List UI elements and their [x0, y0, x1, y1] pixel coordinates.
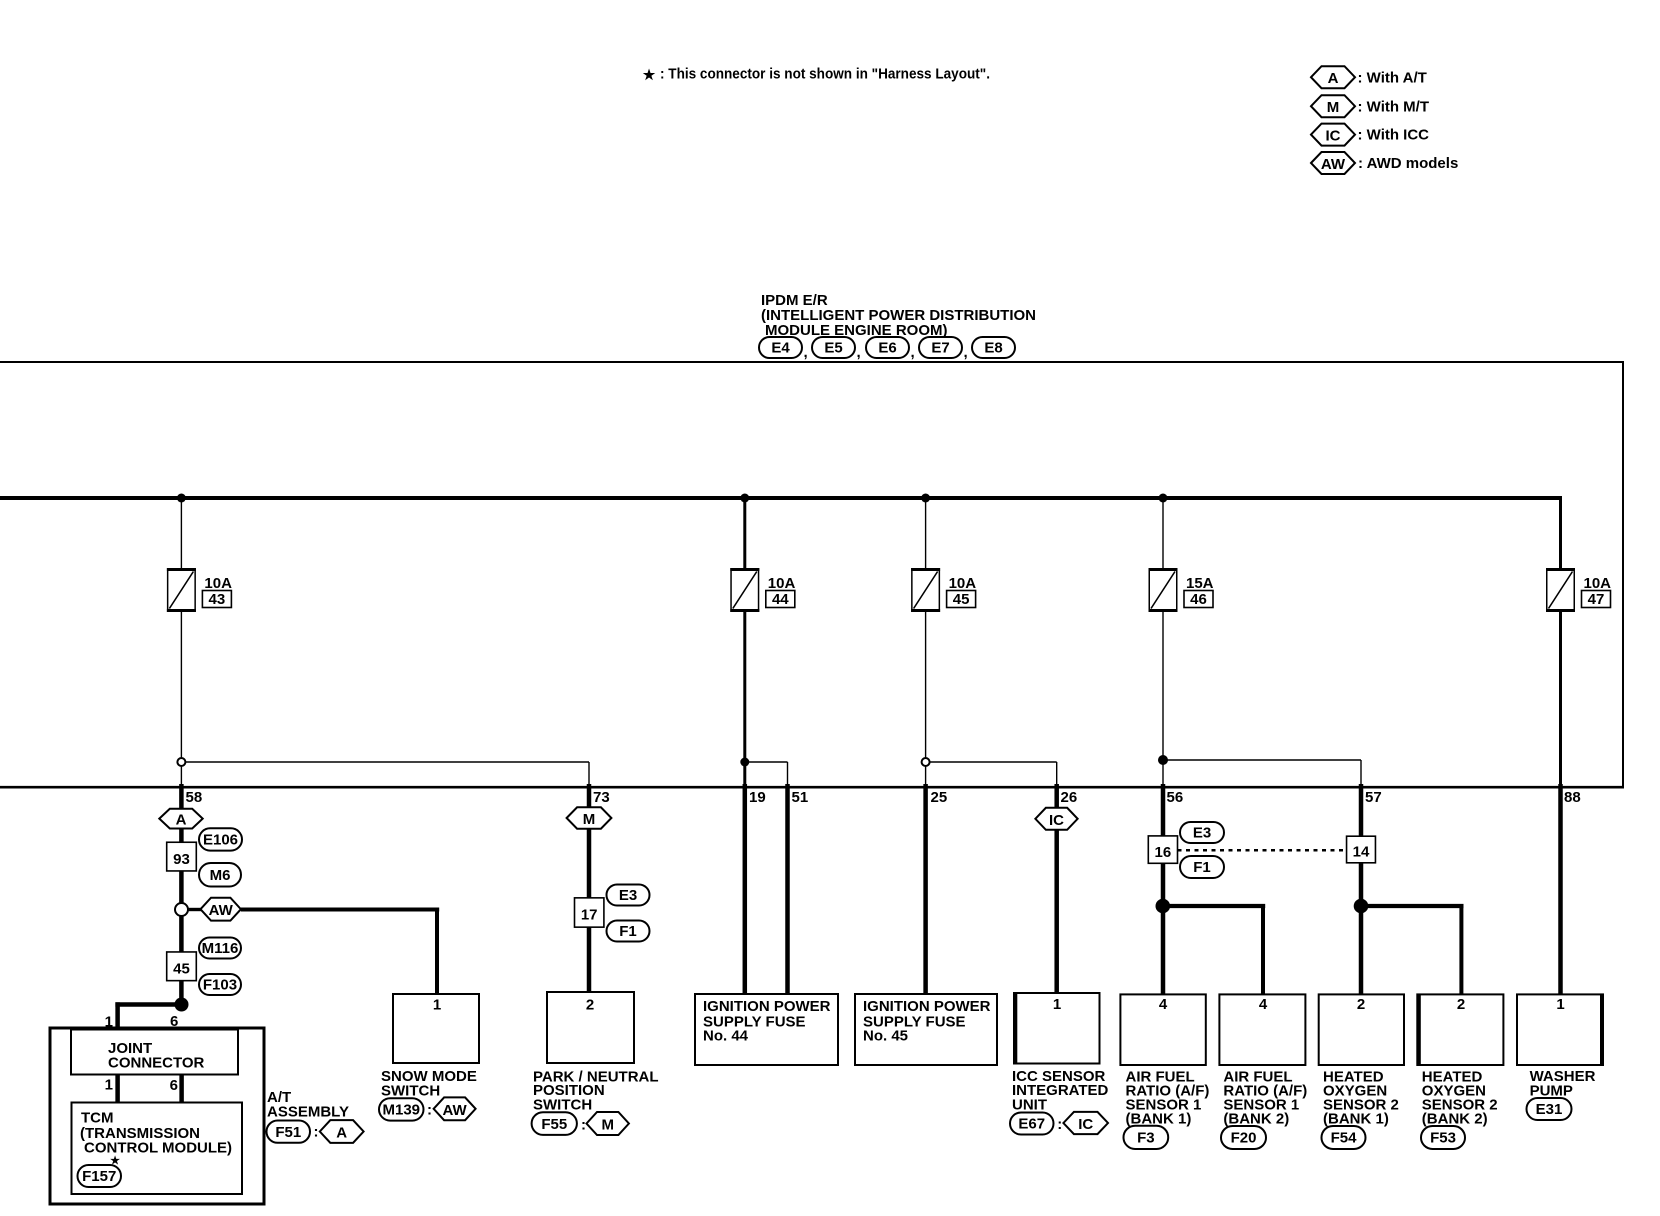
label: washer pump — [1530, 1068, 1596, 1099]
hexagon M (with M/T) on wire 73 — [567, 807, 612, 829]
svg-text::: : — [427, 1102, 432, 1119]
air fuel ratio sensor 1 bank 2 box — [1219, 994, 1305, 1065]
svg-text:,: , — [964, 344, 968, 361]
connector square 45 — [167, 952, 197, 981]
svg-text:1: 1 — [1053, 996, 1061, 1013]
label: air fuel ratio (A/F) sensor 1 (bank 1) — [1126, 1068, 1210, 1127]
connector F103 — [199, 974, 241, 995]
svg-text:73: 73 — [593, 789, 610, 806]
wire: power supply bus inside IPDM — [0, 496, 1561, 500]
svg-text:45: 45 — [953, 591, 970, 608]
svg-text:4: 4 — [1259, 996, 1268, 1013]
svg-text:(BANK 1): (BANK 1) — [1323, 1111, 1389, 1128]
svg-text:E7: E7 — [931, 340, 949, 357]
svg-text:M: M — [601, 1117, 614, 1134]
hexagon A (with A/T) on wire 58 — [159, 809, 202, 829]
svg-text:,: , — [804, 344, 808, 361]
svg-text:15A: 15A — [1186, 575, 1214, 592]
label: IPDM E/R (INTELLIGENT POWER DISTRIBUTION MODULE ENGINE ROOM) — [761, 292, 1036, 339]
junction node below fuse 46 — [1158, 755, 1168, 765]
svg-text:F103: F103 — [203, 977, 237, 994]
label: snow mode switch — [381, 1068, 477, 1099]
connector E3 — [607, 885, 650, 906]
air fuel ratio sensor 1 bank 1 box — [1120, 994, 1205, 1065]
pin 51 — [788, 784, 809, 994]
svg-text:,: , — [911, 344, 915, 361]
wire: branch to heated oxygen sensor bank 2 — [1361, 904, 1464, 994]
wire: joint connector pin 6 to TCM — [179, 1075, 184, 1103]
connector square 14 on wire 57 — [1347, 836, 1376, 863]
svg-text:No. 45: No. 45 — [863, 1028, 908, 1045]
svg-text:43: 43 — [209, 591, 226, 608]
washer pump box — [1517, 994, 1603, 1065]
snow mode switch box — [393, 994, 479, 1063]
svg-text:M: M — [1327, 99, 1340, 116]
svg-text:2: 2 — [586, 997, 594, 1014]
svg-text:M116: M116 — [202, 940, 239, 957]
connector E31 — [1527, 1098, 1572, 1120]
svg-text:AW: AW — [443, 1102, 468, 1119]
svg-text:E67: E67 — [1018, 1116, 1045, 1133]
svg-text:PUMP: PUMP — [1530, 1082, 1573, 1099]
connector M139 : AW — [379, 1097, 476, 1120]
svg-text:E5: E5 — [824, 340, 842, 357]
svg-text:IC: IC — [1326, 128, 1341, 145]
wire: branch to pin 73 (horizontal) — [185, 761, 589, 763]
svg-text:E8: E8 — [984, 340, 1002, 357]
TCM (transmission control module) box — [72, 1103, 243, 1195]
svg-text:19: 19 — [749, 789, 766, 806]
connector E5 — [804, 337, 856, 361]
connector F54 — [1322, 1126, 1366, 1149]
wire: branch down to pin 51 — [787, 762, 789, 786]
svg-text::: : — [1057, 1116, 1062, 1133]
pin 19 — [745, 784, 766, 994]
svg-text:56: 56 — [1167, 789, 1184, 806]
svg-text:F1: F1 — [619, 923, 637, 940]
svg-text:26: 26 — [1061, 789, 1078, 806]
label: air fuel ratio (A/F) sensor 1 (bank 2) — [1223, 1068, 1307, 1127]
svg-text:: With M/T: : With M/T — [1358, 98, 1430, 115]
wire: branch to pin 57 (horizontal) — [1163, 759, 1361, 761]
connector F3 — [1124, 1126, 1169, 1149]
svg-text:E3: E3 — [619, 887, 637, 904]
connector F53 — [1421, 1126, 1465, 1149]
connector square 16 on wire 56 — [1148, 836, 1177, 863]
svg-text:14: 14 — [1353, 844, 1370, 861]
label: heated oxygen sensor 2 (bank 2) — [1422, 1068, 1498, 1127]
svg-text:F53: F53 — [1430, 1130, 1456, 1147]
junction node on wire 57 — [1354, 899, 1369, 914]
svg-text:TCM: TCM — [81, 1110, 114, 1127]
wire: connector 93 down to AWD branch node — [179, 871, 184, 1005]
svg-text:: With A/T: : With A/T — [1358, 69, 1427, 86]
fuse 44 10A — [730, 568, 795, 612]
connector E67 : IC — [1010, 1112, 1108, 1135]
connector square 17 — [575, 898, 604, 927]
pin 26 — [1057, 784, 1077, 993]
svg-text:47: 47 — [1588, 591, 1605, 608]
connector square 93 — [167, 842, 197, 871]
wire: fuse 43 down to branch node — [180, 612, 182, 786]
svg-text:44: 44 — [772, 591, 789, 608]
dashed link between connector 16 and connector 14 — [1178, 849, 1347, 852]
wire: fuse 44 down to pin 19 — [743, 612, 746, 786]
wire: hexagon M down to connector 17 — [587, 829, 592, 898]
branch node (open) AWD — [175, 903, 188, 916]
junction node on bus at fuse 43 — [177, 494, 186, 503]
svg-text:57: 57 — [1365, 789, 1382, 806]
svg-text:M6: M6 — [210, 867, 231, 884]
wire: bus to fuse 45 — [925, 498, 927, 568]
connector E4 — [759, 337, 802, 358]
svg-text:1: 1 — [105, 1077, 113, 1094]
connector E106 — [199, 828, 242, 850]
svg-text:AW: AW — [1321, 156, 1346, 173]
fuse 43 10A — [167, 568, 232, 612]
svg-text:F157: F157 — [82, 1168, 116, 1185]
connector M116 — [199, 938, 241, 959]
svg-text:CONNECTOR: CONNECTOR — [108, 1055, 205, 1072]
svg-text:No. 44: No. 44 — [703, 1028, 749, 1045]
svg-text:88: 88 — [1564, 789, 1581, 806]
heated oxygen sensor 2 bank 1 box — [1319, 994, 1404, 1065]
wire: joint connector pin 1 to TCM — [115, 1075, 120, 1103]
note: star footnote — [643, 66, 990, 83]
svg-text:4: 4 — [1159, 996, 1168, 1013]
svg-text:10A: 10A — [1584, 575, 1612, 592]
svg-text:10A: 10A — [204, 575, 232, 592]
svg-text:F54: F54 — [1331, 1130, 1358, 1147]
legend: hexagon AW = AWD models — [1311, 152, 1458, 174]
branch node (open) below fuse 45 — [922, 758, 930, 766]
connector F1 — [607, 921, 650, 942]
svg-text:IC: IC — [1078, 1116, 1093, 1133]
wire: AWD branch node to hexagon AW — [188, 908, 202, 911]
svg-text:: With ICC: : With ICC — [1358, 127, 1430, 144]
wire: branch to pin 51 (horizontal) — [745, 761, 788, 763]
heated oxygen sensor 2 bank 2 box — [1417, 994, 1503, 1065]
connector E6 — [857, 337, 910, 361]
pin 88 — [1561, 784, 1581, 994]
junction node above joint connector — [175, 998, 189, 1012]
svg-text:1: 1 — [1556, 996, 1564, 1013]
svg-text:: This connector is not shown: : This connector is not shown in "Harnes… — [660, 66, 990, 83]
svg-text:6: 6 — [170, 1077, 178, 1094]
svg-text:E6: E6 — [878, 340, 896, 357]
svg-text:10A: 10A — [768, 575, 796, 592]
pin 25 — [926, 784, 948, 994]
svg-text:2: 2 — [1457, 996, 1465, 1013]
wire: branch down to pin 26 — [1056, 762, 1058, 786]
junction node on wire 56 — [1156, 899, 1171, 914]
svg-text:A: A — [1328, 70, 1339, 87]
A/T assembly outline box — [50, 1028, 264, 1204]
svg-text:M139: M139 — [382, 1102, 420, 1119]
svg-text:45: 45 — [173, 961, 190, 978]
fuse 45 10A — [911, 568, 976, 612]
svg-text:46: 46 — [1190, 591, 1207, 608]
svg-text:E4: E4 — [771, 340, 790, 357]
wire: branch down to pin 73 — [588, 762, 590, 786]
svg-text:E3: E3 — [1193, 825, 1211, 842]
svg-text:: AWD models: : AWD models — [1358, 155, 1458, 172]
svg-text:(BANK 2): (BANK 2) — [1223, 1111, 1289, 1128]
wire: bus to fuse 43 — [180, 498, 182, 568]
IPDM E/R box outline — [0, 362, 1624, 787]
svg-text:★: ★ — [643, 67, 656, 83]
fuse 46 15A — [1149, 568, 1214, 612]
svg-text:ASSEMBLY: ASSEMBLY — [267, 1104, 349, 1121]
svg-text:,: , — [857, 344, 861, 361]
park / neutral position switch box — [547, 992, 634, 1063]
svg-text:16: 16 — [1155, 844, 1172, 861]
ignition power supply fuse No.44 box — [695, 994, 838, 1065]
wire: bus corner down to fuse 47 — [1559, 496, 1562, 568]
svg-text:A: A — [176, 812, 187, 829]
pin 56 — [1163, 784, 1183, 994]
label: A/T assembly — [267, 1089, 349, 1121]
legend: hexagon IC = With ICC — [1311, 124, 1429, 146]
connector E3 (right of 16) — [1180, 822, 1224, 843]
wire: fuse 45 down to pin 25 — [925, 612, 927, 786]
svg-text:51: 51 — [792, 789, 809, 806]
wire: fuse 47 down to pin 88 — [1559, 612, 1562, 786]
svg-text:1: 1 — [433, 997, 441, 1014]
label: heated oxygen sensor 2 (bank 1) — [1323, 1068, 1399, 1127]
svg-text:IC: IC — [1049, 812, 1064, 829]
branch node (open) below fuse 43 — [177, 758, 185, 766]
svg-text:E31: E31 — [1536, 1101, 1563, 1118]
junction node below fuse 44 — [740, 758, 749, 767]
svg-text:10A: 10A — [949, 575, 977, 592]
fuse 47 10A — [1546, 568, 1611, 612]
svg-text:F55: F55 — [541, 1116, 567, 1133]
svg-text:F51: F51 — [275, 1124, 301, 1141]
svg-text:E106: E106 — [203, 832, 238, 849]
wire: branch left to joint connector pin 1 — [115, 1002, 181, 1029]
connector E7 — [911, 337, 963, 361]
pin 57 — [1361, 784, 1382, 994]
svg-text:CONTROL MODULE): CONTROL MODULE) — [84, 1140, 232, 1157]
wire: connector 17 down to park/neutral position switch — [587, 927, 592, 992]
wire: branch down to pin 57 — [1360, 760, 1362, 786]
svg-text:SWITCH: SWITCH — [533, 1096, 592, 1113]
ICC sensor integrated unit box — [1014, 993, 1100, 1064]
connector F157 — [78, 1165, 122, 1187]
ignition power supply fuse No.45 box — [855, 994, 997, 1065]
wire: hexagon A to connector 93 — [179, 829, 184, 843]
svg-text:M: M — [583, 811, 596, 828]
label: ICC sensor integrated unit — [1012, 1068, 1109, 1113]
svg-text:17: 17 — [581, 907, 598, 924]
svg-text:F3: F3 — [1137, 1130, 1155, 1147]
wire: hexagon AW to snow mode switch — [241, 910, 439, 995]
connector F51 : A — [267, 1120, 364, 1143]
svg-text::: : — [581, 1117, 586, 1134]
wire: fuse 46 down to pin 56 — [1162, 612, 1164, 786]
hexagon IC (with ICC) on wire 26 — [1035, 808, 1077, 830]
svg-text:2: 2 — [1357, 996, 1365, 1013]
svg-text:UNIT: UNIT — [1012, 1096, 1047, 1113]
wire: branch to pin 26 (horizontal) — [929, 761, 1057, 763]
hexagon AW (AWD models) — [201, 898, 241, 921]
legend: hexagon A = With A/T — [1311, 66, 1427, 88]
connector F20 — [1221, 1126, 1266, 1149]
connector F55 : M — [532, 1112, 629, 1135]
svg-text::: : — [314, 1124, 319, 1141]
svg-text:58: 58 — [186, 789, 203, 806]
joint connector box — [71, 1030, 238, 1075]
label: park / neutral position switch — [533, 1068, 659, 1113]
pin 73 — [589, 784, 610, 809]
legend: hexagon M = With M/T — [1311, 95, 1429, 117]
svg-text:93: 93 — [173, 851, 190, 868]
svg-text:F20: F20 — [1231, 1130, 1257, 1147]
connector M6 — [199, 863, 241, 887]
junction node on bus at fuse 45 — [921, 494, 930, 503]
svg-text:SWITCH: SWITCH — [381, 1082, 440, 1099]
svg-text:AW: AW — [209, 902, 234, 919]
wire: branch to A/F sensor bank 2 — [1163, 904, 1265, 994]
connector E8 — [964, 337, 1016, 361]
svg-text:(BANK 2): (BANK 2) — [1422, 1111, 1488, 1128]
wire: bus to fuse 46 — [1162, 498, 1164, 568]
junction node on bus at fuse 46 — [1159, 494, 1168, 503]
svg-text:25: 25 — [931, 789, 948, 806]
wire: bus to fuse 44 — [743, 498, 746, 568]
svg-text:F1: F1 — [1193, 859, 1211, 876]
pin 58 — [181, 784, 202, 809]
connector F1 (right of 16) — [1180, 856, 1224, 878]
svg-text:A: A — [336, 1125, 347, 1142]
junction node on bus at fuse 44 — [740, 494, 749, 503]
